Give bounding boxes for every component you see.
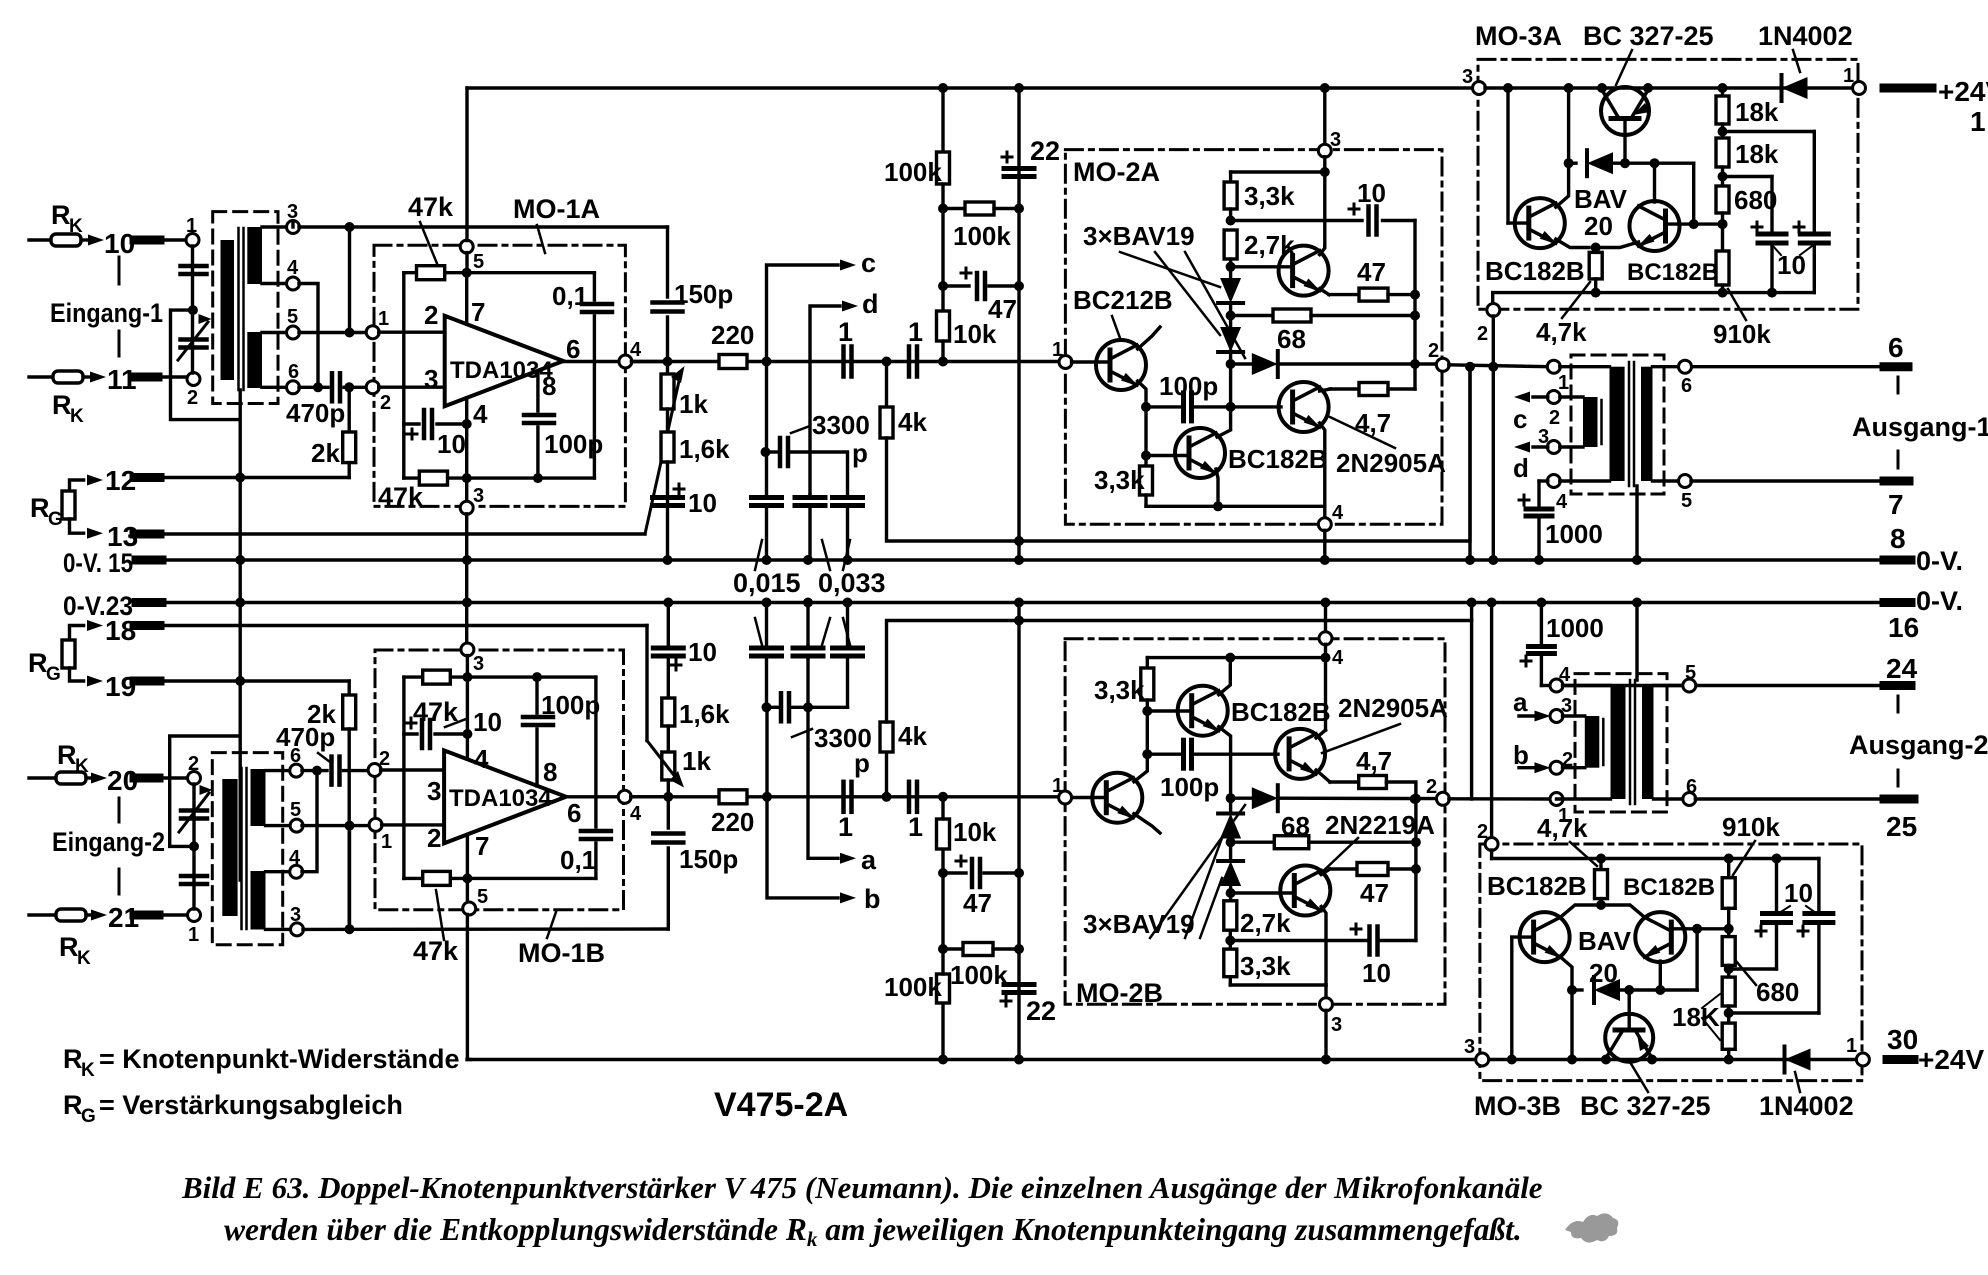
capacitor input trimmer variable <box>181 337 207 342</box>
ink smudge <box>1565 1213 1618 1242</box>
svg-text:K: K <box>81 1060 95 1081</box>
MO-3A pin 3 <box>1473 82 1486 95</box>
TA1 pin 5 <box>1653 479 1680 482</box>
svg-text:6: 6 <box>567 798 581 828</box>
svg-text:3,3k: 3,3k <box>1244 181 1295 211</box>
svg-text:150p: 150p <box>679 844 738 874</box>
wire MO-3B left vertical <box>1510 937 1513 1059</box>
svg-text:1: 1 <box>1052 339 1063 361</box>
riser MO-2A out to 0-V <box>1468 367 1471 560</box>
wire inner bottom MO-2B <box>1230 983 1326 986</box>
svg-text:BC182B: BC182B <box>1627 259 1719 286</box>
TA2 primary winding <box>1611 686 1626 800</box>
svg-text:1: 1 <box>1558 372 1569 394</box>
wire supply column to 0-V rails <box>465 514 468 560</box>
svg-text:5: 5 <box>1685 662 1696 684</box>
MO-1A pin 1 input <box>366 326 379 339</box>
transistor BC182B right MO-3A <box>1630 201 1680 251</box>
svg-text:2,7k: 2,7k <box>1244 230 1295 260</box>
resistor 18k no.2 MO-3A <box>1716 138 1729 167</box>
svg-text:47: 47 <box>1360 878 1389 908</box>
svg-text:MO-2A: MO-2A <box>1073 157 1160 187</box>
capacitor 0,1 MO-1A <box>593 273 596 300</box>
capacitor input trimmer variable ch2 <box>181 808 207 813</box>
vertical 100k column ch2 <box>938 1055 948 1065</box>
svg-text:1: 1 <box>1558 805 1569 827</box>
TA2 secondary winding <box>1642 686 1654 800</box>
wire signal row channel 1 <box>631 360 1059 363</box>
svg-text:1k: 1k <box>682 746 711 776</box>
diode BAV20 MO-3B <box>1572 988 1582 991</box>
svg-text:24: 24 <box>1886 653 1918 684</box>
wire 2N2905A collector down <box>1320 423 1325 506</box>
leader lines 0,015/0,033 ch2 <box>755 618 762 645</box>
svg-text:d: d <box>862 289 879 319</box>
svg-text:3: 3 <box>1462 66 1473 88</box>
resistor 3,3k lower MO-2B <box>1229 930 1232 949</box>
capacitor 22u ch2 <box>1004 982 1034 987</box>
wire +24V rail inside MO-3A <box>1485 86 1853 89</box>
transistor BC182B left MO-3A <box>1515 198 1565 248</box>
svg-text:47k: 47k <box>378 482 424 512</box>
module MO-1B dash-dot box <box>375 650 624 910</box>
svg-text:G: G <box>81 1106 96 1127</box>
T1 pin 4 <box>262 282 287 285</box>
resistor 100k vertical ch2 <box>937 974 950 1003</box>
svg-text:6: 6 <box>1686 776 1697 798</box>
capacitor 10u MO-2B <box>1230 939 1367 942</box>
MO-3B pin 3 <box>1476 1053 1489 1066</box>
svg-text:2k: 2k <box>311 438 340 468</box>
capacitor 3300p channel 2 <box>765 707 768 797</box>
svg-text:100p: 100p <box>544 429 603 459</box>
vertical 22 column ch2 <box>1014 598 1024 608</box>
svg-text:4: 4 <box>473 399 488 429</box>
svg-text:6: 6 <box>566 334 580 364</box>
wire 2N2905A ch2 collector up <box>1316 730 1325 738</box>
svg-text:220: 220 <box>711 807 754 837</box>
svg-text:8: 8 <box>543 757 557 787</box>
wire T1 left <box>191 246 194 373</box>
resistor 18k no.2 MO-3B <box>1722 1023 1735 1049</box>
MO-1B inner top edge <box>466 656 469 678</box>
svg-text:100k: 100k <box>884 972 942 1002</box>
TA1 pin 6 <box>1653 365 1680 368</box>
svg-text:R: R <box>63 1044 83 1074</box>
svg-text:1,6k: 1,6k <box>679 434 730 464</box>
svg-text:R: R <box>30 493 50 523</box>
op-amp pin7 stub <box>465 273 468 325</box>
svg-text:4k: 4k <box>898 407 927 437</box>
svg-text:BC182B: BC182B <box>1231 697 1331 727</box>
svg-text:10: 10 <box>473 707 502 737</box>
resistor 100k vertical ch1 <box>937 152 950 184</box>
resistor 3,3k upper MO-2B <box>1146 658 1149 668</box>
svg-text:6: 6 <box>1888 332 1904 363</box>
wire link d arrow <box>810 306 840 495</box>
capacitor 0,033 C ch2 <box>846 603 849 649</box>
wire BC212B ch2 collector up <box>1134 754 1147 782</box>
capacitor 150p channel 2 <box>667 797 670 828</box>
svg-text:3,3k: 3,3k <box>1240 951 1291 981</box>
svg-text:R: R <box>63 1090 83 1120</box>
wire core ground TA1 <box>1635 486 1638 560</box>
svg-text:3: 3 <box>473 653 484 675</box>
wire BC212B emitter stub <box>1138 327 1160 349</box>
module MO-1A dash-dot box <box>374 245 625 506</box>
resistor 47k feedback bottom ch1 <box>419 471 447 485</box>
svg-text:BC182B: BC182B <box>1485 256 1585 286</box>
wire BC182B-4 collector down <box>1659 961 1662 990</box>
TA1 pin 3 link d <box>1547 441 1560 454</box>
capacitor 100p MO-1A <box>536 372 539 411</box>
wire BC182B emitter down <box>1219 727 1231 755</box>
capacitor 1000u ch1 <box>1537 481 1540 505</box>
pot column ch1: 150p from top wire <box>666 227 669 297</box>
op-amp pin4 stub top <box>466 677 469 759</box>
svg-text:K: K <box>70 406 84 427</box>
column diode chain to BC182B <box>1229 364 1232 407</box>
wire 2N2219A collector down <box>1321 907 1326 986</box>
svg-text:4: 4 <box>1332 502 1344 524</box>
svg-text:3: 3 <box>1330 129 1341 151</box>
capacitor 1000u ch2 <box>1536 598 1546 608</box>
svg-text:MO-3A: MO-3A <box>1475 21 1562 51</box>
svg-text:BC182B: BC182B <box>1623 874 1715 901</box>
svg-text:R: R <box>57 740 77 770</box>
wire link c arrow <box>767 265 839 362</box>
MO-3B pin 1 <box>1856 1053 1869 1066</box>
diode BAV19 no.1 MO-2B <box>1229 754 1232 798</box>
svg-text:10: 10 <box>1362 958 1391 988</box>
MO-2A pin 1 <box>1059 356 1072 369</box>
svg-text:4: 4 <box>1556 491 1568 513</box>
resistor 47k feedback bottom ch2 <box>423 871 451 885</box>
input transformer T1 dashed box <box>213 212 278 404</box>
svg-text:4,7: 4,7 <box>1355 408 1391 438</box>
transistor 2N2219A <box>1231 265 1293 268</box>
wire line 7 output ch1 <box>1691 479 1884 482</box>
svg-text:2: 2 <box>380 392 391 414</box>
svg-text:4: 4 <box>287 257 299 279</box>
svg-text:BC182B: BC182B <box>1487 871 1587 901</box>
svg-text:910k: 910k <box>1722 812 1780 842</box>
wire 2k ch2 column <box>348 681 351 695</box>
svg-text:6: 6 <box>288 361 299 383</box>
MO-1B pin 2 input <box>368 764 381 777</box>
svg-text:1: 1 <box>1846 1035 1857 1057</box>
svg-text:Eingang-2: Eingang-2 <box>52 827 165 857</box>
svg-text:V475-2A: V475-2A <box>714 1086 848 1124</box>
svg-text:5: 5 <box>290 799 301 821</box>
svg-text:4: 4 <box>630 803 642 825</box>
wire BC182B emitter down <box>1216 469 1218 506</box>
svg-text:0,1: 0,1 <box>552 281 588 311</box>
wire terminal 19 <box>136 679 349 682</box>
svg-text:Eingang-1: Eingang-1 <box>50 298 163 328</box>
terminal +24V top <box>1884 84 1932 93</box>
wire 2k to 12 <box>348 463 351 478</box>
wire link a arrow <box>808 707 838 858</box>
capacitor 470p channel 2 <box>329 757 334 785</box>
MO-2A pin 2 <box>1436 358 1449 371</box>
svg-text:1: 1 <box>381 831 392 853</box>
wire pin6 row <box>299 386 328 389</box>
svg-text:K: K <box>77 948 91 969</box>
svg-text:2: 2 <box>1549 407 1560 429</box>
MO-3A pin 2 <box>1491 293 1494 304</box>
resistor 10k ch2 <box>941 849 944 873</box>
node dash Eingang-1 upper <box>118 257 121 284</box>
svg-text:MO-1B: MO-1B <box>518 938 605 968</box>
svg-text:3: 3 <box>1331 1014 1342 1036</box>
TA2 pin 6 <box>1654 797 1684 800</box>
svg-text:2: 2 <box>1428 340 1439 362</box>
svg-text:5: 5 <box>1681 490 1692 512</box>
MO-1A pin 5 <box>460 240 473 253</box>
wire line 25 output ch2 <box>1695 797 1884 800</box>
svg-text:100p: 100p <box>1160 772 1219 802</box>
capacitor 10u MO-2A bootstrap <box>1231 219 1362 222</box>
TA2 pin 2 link b <box>1550 761 1563 774</box>
capacitor 22u ch1 <box>1004 166 1034 171</box>
transistor BC212B MO-2B <box>1071 796 1106 799</box>
transistor 2N2905A MO-2A <box>1279 382 1329 432</box>
wire BC212B collector to 100p row <box>1138 381 1146 407</box>
resistor RK (input 11) <box>29 375 53 378</box>
wire inner top MO-2B <box>1324 644 1327 730</box>
potentiometer 1k channel 2 <box>667 726 670 752</box>
wire line 24 output ch2 <box>1563 684 1684 687</box>
svg-text:3,3k: 3,3k <box>1094 675 1145 705</box>
junction c column on row1 <box>762 357 772 367</box>
T1 pin 3 <box>262 225 287 228</box>
svg-text:Bild E 63. Doppel-Knotenpunkt: Bild E 63. Doppel-Knotenpunktverstärker … <box>181 1170 1543 1205</box>
T2 pin 2 <box>188 772 201 785</box>
svg-text:5: 5 <box>477 886 488 908</box>
resistor 47 MO-2A <box>1329 293 1359 296</box>
resistor 18k no.1 MO-3A <box>1721 88 1724 96</box>
svg-text:1N4002: 1N4002 <box>1758 21 1853 51</box>
capacitor 0,015 B ch1 <box>808 495 811 497</box>
resistor 4,7k MO-3A <box>1556 239 1589 247</box>
capacitor 100p MO-2A <box>1141 402 1151 412</box>
svg-text:a: a <box>1513 687 1528 717</box>
wire pin6 row ch2 <box>302 769 327 772</box>
capacitor 0,015 A ch2 <box>765 603 768 649</box>
svg-text:4: 4 <box>630 339 642 361</box>
svg-text:22: 22 <box>1030 136 1060 166</box>
TA2 winding small (a-b) <box>1585 716 1600 768</box>
svg-text:680: 680 <box>1756 977 1799 1007</box>
TA1 secondary winding <box>1641 367 1653 481</box>
diode 1N4002 MO-3A <box>1782 77 1808 99</box>
svg-text:5: 5 <box>287 306 298 328</box>
wire BC182B-3 collector down <box>1561 957 1572 990</box>
diode small signal MO-2A <box>1229 351 1232 364</box>
module MO-3A dash-dot box <box>1478 59 1858 309</box>
transistor BC182B MO-2B <box>1147 709 1192 712</box>
svg-text:1: 1 <box>378 308 389 330</box>
module MO-2A dash-dot box <box>1065 150 1442 525</box>
MO-1B pin 4 output <box>618 790 631 803</box>
MO-1B pin 3 <box>461 643 474 656</box>
wire terminal 12 <box>136 476 349 479</box>
T2 pin 5 <box>266 824 291 827</box>
svg-text:3×BAV19: 3×BAV19 <box>1083 909 1195 939</box>
svg-text:4,7: 4,7 <box>1356 746 1392 776</box>
wire tap pin3 to opamp input ch1 <box>348 227 351 333</box>
MO-1B left rail <box>402 677 405 878</box>
TA1 pin 2 link c <box>1547 391 1560 404</box>
svg-text:18k: 18k <box>1735 97 1779 127</box>
svg-text:2: 2 <box>187 387 198 409</box>
op-amp pin7 stub bottom <box>466 835 469 879</box>
capacitor 150p channel 1 <box>653 300 683 305</box>
module MO-2B dash-dot box <box>1065 639 1445 1005</box>
junction T1 left <box>188 305 198 315</box>
wire BC182B collector up <box>1219 658 1231 695</box>
svg-text:0,1: 0,1 <box>560 845 596 875</box>
capacitor 0,015 B ch2 <box>806 603 809 649</box>
svg-text:47: 47 <box>1357 257 1386 287</box>
leader 1N4002 ch2 <box>1795 1072 1800 1092</box>
svg-text:10: 10 <box>1784 878 1813 908</box>
svg-text:10: 10 <box>688 637 717 667</box>
MO-1A inner bottom edge <box>404 476 595 479</box>
wire supply column upper <box>465 88 468 241</box>
svg-text:BC212B: BC212B <box>1073 285 1173 315</box>
svg-text:+24V: +24V <box>1938 76 1988 107</box>
svg-text:2N2219A: 2N2219A <box>1325 810 1435 840</box>
resistor RK (input 21) <box>29 913 56 916</box>
svg-text:19: 19 <box>105 671 136 702</box>
svg-text:3×BAV19: 3×BAV19 <box>1083 221 1195 251</box>
resistor 680 MO-3A <box>1716 186 1729 213</box>
wire BAV row to right <box>1692 163 1695 224</box>
svg-text:100k: 100k <box>953 221 1011 251</box>
transistor BC212B MO-2A <box>1072 360 1111 363</box>
svg-text:werden über die Entkopplungswi: werden über die Entkopplungswiderstände … <box>224 1212 1522 1251</box>
module MO-3B dash-dot box <box>1480 844 1862 1081</box>
capacitor 10u left MO-3B <box>1729 967 1777 970</box>
svg-text:3: 3 <box>1538 426 1549 448</box>
output transformer TA2 dashed box <box>1575 674 1667 812</box>
capacitor 10u left MO-3A <box>1723 175 1773 178</box>
svg-text:910k: 910k <box>1713 319 1771 349</box>
MO-1A pin 4 output <box>619 355 632 368</box>
wire terminal 18 <box>136 624 647 627</box>
svg-text:10k: 10k <box>953 319 997 349</box>
svg-text:R: R <box>59 932 79 962</box>
svg-text:1k: 1k <box>679 389 708 419</box>
svg-text:150p: 150p <box>674 279 733 309</box>
vertical 22 column ch1 <box>1014 83 1024 93</box>
svg-text:BC 327-25: BC 327-25 <box>1580 1091 1711 1121</box>
T1 pin 2 <box>187 373 200 386</box>
wire terminal 13 <box>136 532 645 535</box>
capacitor input balance fixed <box>181 264 207 269</box>
wire inner bottom MO-2A <box>1146 505 1325 508</box>
svg-text:8: 8 <box>1890 523 1906 554</box>
resistor 3,3k lower MO-2A <box>1140 466 1153 495</box>
TA2 pin 1 <box>1550 793 1563 806</box>
capacitor 0,1 MO-1B <box>581 829 611 834</box>
svg-text:3300: 3300 <box>812 410 870 440</box>
MO-1A inner top edge <box>404 271 595 274</box>
capacitor 10u MO-1A <box>404 422 419 425</box>
leader 1N4002 <box>1793 50 1800 72</box>
transistor BC182B right MO-3B <box>1635 912 1685 962</box>
svg-text:1N4002: 1N4002 <box>1759 1091 1854 1121</box>
svg-text:= Verstärkungsabgleich: = Verstärkungsabgleich <box>99 1090 403 1120</box>
resistor 2,7k MO-2A <box>1224 230 1237 259</box>
svg-text:20: 20 <box>1584 211 1613 241</box>
svg-text:2: 2 <box>1477 323 1488 345</box>
MO-2A pin 3 <box>1320 83 1330 93</box>
TA1 winding small (c-d) <box>1583 397 1598 447</box>
resistor 4k channel 1 <box>885 362 888 408</box>
svg-text:7: 7 <box>1888 489 1904 520</box>
T2 secondary winding lower <box>251 871 266 930</box>
MO-2B pin 3 <box>1324 985 1327 998</box>
svg-text:10k: 10k <box>953 817 997 847</box>
svg-text:+24V: +24V <box>1918 1044 1984 1075</box>
T2 secondary winding upper <box>251 769 266 826</box>
op-amp pin4 stub <box>465 398 468 478</box>
resistor 47k feedback top ch1 <box>417 266 445 280</box>
T1 primary winding <box>221 240 235 380</box>
resistor 4k channel 2 <box>885 752 888 797</box>
capacitor 47u ch2 <box>943 871 966 874</box>
potentiometer 1k channel 1 <box>666 362 669 375</box>
resistor 4,7k MO-3B <box>1599 859 1602 870</box>
MO-1B pin 5 <box>466 878 469 902</box>
svg-text:p: p <box>854 748 870 778</box>
resistor 2k channel 2 <box>343 695 356 729</box>
svg-text:0-V.: 0-V. <box>1916 586 1963 616</box>
T2 pin 3 <box>266 928 291 931</box>
svg-text:BAV: BAV <box>1578 926 1632 956</box>
MO-3B pin 2 <box>1487 598 1497 608</box>
svg-text:68: 68 <box>1277 324 1306 354</box>
wire 4k to output bus ch2 <box>887 621 1472 800</box>
resistor 100k horizontal ch2 <box>943 947 963 950</box>
svg-text:0,033: 0,033 <box>818 568 886 598</box>
svg-text:c: c <box>861 248 876 278</box>
MO-2B pin 1 <box>1059 791 1072 804</box>
transistor 2N2219A MO-2B <box>1229 887 1232 901</box>
wire pin5 to MO-1A pin1 <box>299 331 367 334</box>
wire link b arrow <box>762 792 772 802</box>
leader MO-1B <box>547 912 556 938</box>
TA1 primary winding <box>1610 367 1625 481</box>
MO-1B inner right rail <box>594 677 597 827</box>
svg-text:10: 10 <box>1357 178 1386 208</box>
wire pin5 to MO-1B pin1 <box>302 824 370 827</box>
svg-text:18k: 18k <box>1735 139 1779 169</box>
T2 pin 4 <box>266 870 291 873</box>
svg-text:= Knotenpunkt-Widerstände: = Knotenpunkt-Widerstände <box>99 1044 460 1074</box>
svg-text:1: 1 <box>1843 65 1854 87</box>
capacitor 3300p channel 1 <box>765 362 768 496</box>
svg-text:2: 2 <box>1426 776 1437 798</box>
wire right column MO-2B <box>1414 799 1417 941</box>
svg-text:47: 47 <box>963 888 992 918</box>
resistor 4,7 MO-2A <box>1320 389 1330 391</box>
svg-text:Ausgang-2: Ausgang-2 <box>1849 730 1988 760</box>
T2 core <box>240 768 243 929</box>
